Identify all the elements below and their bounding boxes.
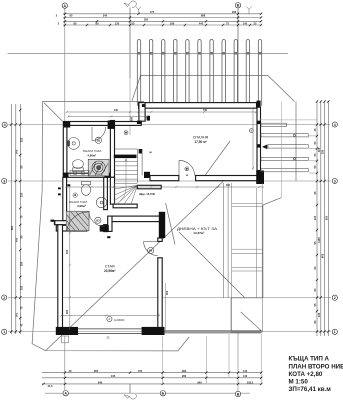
wall bathroom right [110,121,114,178]
svg-text:13,67м²: 13,67м² [193,231,204,235]
svg-text:120: 120 [313,215,317,220]
wall bedroom top [139,103,257,109]
svg-text:988: 988 [201,14,206,18]
shower bath1 [88,159,109,176]
svg-text:140: 140 [243,21,248,25]
wall stair west lower [110,177,114,204]
svg-text:3,98м²: 3,98м² [77,204,86,208]
wall hall west [108,216,112,231]
terrace rails [232,183,263,332]
svg-text:450: 450 [15,237,19,242]
shower bath2 hatched [66,211,89,231]
wall bath2 east lower [104,225,108,232]
tiny dimension numbers bottom [47,369,253,388]
svg-text:БАНЯ И ТОАЛ.: БАНЯ И ТОАЛ. [83,149,102,153]
room labels [69,136,218,340]
svg-text:В3: В3 [97,138,101,142]
svg-text:725: 725 [138,369,143,373]
dimension ticks bottom [42,371,262,385]
floor drain bath2 [73,193,77,197]
svg-text:ДНЕВНА + КЪТ ЗА: ДНЕВНА + КЪТ ЗА [177,227,218,231]
svg-text:Б: Б [162,392,165,396]
svg-text:2,17: 2,17 [53,219,57,225]
wall bedroom right [257,107,261,170]
svg-text:890: 890 [10,225,14,230]
svg-text:305: 305 [317,147,321,152]
walls (hollow double-line) [55,103,261,329]
svg-text:250: 250 [19,261,23,266]
tiny dimension numbers right rotated [313,128,328,323]
wall hall south [109,216,162,222]
wall staya top [56,225,87,231]
dimension ticks left [10,109,21,333]
wall B lower [158,238,162,241]
svg-text:290: 290 [65,309,69,314]
svg-text:140: 140 [243,369,248,373]
svg-text:730: 730 [203,109,208,112]
dimension ticks right [316,100,330,332]
wall axis3 west segment [150,176,179,181]
svg-text:940: 940 [98,380,103,384]
svg-text:160: 160 [114,109,119,112]
svg-text:152: 152 [19,285,23,290]
sink bath1 [67,138,79,150]
stair treads [115,162,138,184]
svg-text:940: 940 [197,380,202,384]
axis B top thick segment [237,8,239,102]
vanity bath2 [70,171,89,176]
svg-text:пр.180/60: пр.180/60 [114,319,125,322]
terrace square [231,298,263,332]
bottom window band [78,329,262,334]
exterior step stub [62,336,69,343]
dimension lines right [317,101,328,336]
svg-text:775: 775 [150,10,155,14]
dimension lines top [63,14,262,25]
sink bath2 [96,197,106,207]
wall axis3 east segment [196,176,261,181]
pergola rafters top-right [137,40,261,106]
svg-text:330: 330 [321,149,325,154]
wall bath2 west [63,177,67,220]
svg-text:Щир. 16,7/30: Щир. 16,7/30 [139,192,155,196]
svg-text:2: 2 [3,296,5,300]
svg-text:365: 365 [94,369,99,373]
wall column blocks [51,101,265,335]
svg-text:4,80м²: 4,80м² [87,154,96,158]
terrace upper edge line [260,119,317,121]
dimension lines left [11,104,20,334]
wall bath divider [63,173,110,177]
svg-text:41,5: 41,5 [47,384,53,388]
toilet bath1 [72,160,83,172]
svg-text:605: 605 [321,253,325,258]
svg-text:445: 445 [199,21,204,25]
svg-text:305: 305 [15,149,19,154]
svg-text:1: 1 [334,330,336,334]
svg-text:305: 305 [65,249,69,254]
stair winder fan [115,184,138,205]
svg-text:196: 196 [170,21,175,25]
dimension ticks top [64,13,262,27]
tiny dimension numbers left rotated [10,137,69,326]
wall stairwell edge [137,185,161,189]
svg-text:305: 305 [144,18,149,22]
terrace drain marker [124,131,128,135]
svg-text:135: 135 [317,312,321,317]
wall bedroom left [139,103,145,122]
door bath1 leaf and arc [92,127,106,141]
svg-text:102,5: 102,5 [247,380,254,384]
svg-text:3: 3 [334,179,336,183]
wall bath2 east upper [104,177,108,209]
section line + flags [129,8,131,394]
interior dim lines [60,107,264,330]
svg-text:3: 3 [3,179,5,183]
wall step sw [55,221,68,225]
wall bathroom top [63,122,141,126]
wall bathroom left [63,127,67,175]
svg-text:КЪЩА ТИП А: КЪЩА ТИП А [289,356,330,363]
tiny dimension numbers top [56,10,257,26]
rafter ridge junction marks [137,52,262,55]
svg-text:4: 4 [4,123,6,127]
svg-text:302: 302 [165,290,169,295]
stair enclosure [115,149,143,183]
beam3 arrow block [262,144,267,149]
svg-text:4: 4 [334,123,336,127]
svg-text:А: А [64,392,67,396]
stair walking line with arrow [120,159,127,202]
svg-text:280: 280 [182,369,187,373]
svg-text:20,96м²: 20,96м² [104,269,115,273]
svg-text:236: 236 [232,10,237,14]
door bath2 leaf and arc [89,211,104,226]
glazing dnevna east [223,183,228,298]
wall stair south [113,204,137,208]
svg-text:М 1:50: М 1:50 [289,378,309,385]
dimension hooks top [136,7,252,15]
svg-text:В: В [237,392,240,396]
svg-text:152: 152 [19,137,23,142]
door staya leaf and arc [144,241,158,255]
extension lines below building [163,136,317,383]
terrace mid vertical [280,102,282,198]
svg-text:1150: 1150 [317,237,321,243]
svg-text:ЗП=76,41 кв.м: ЗП=76,41 кв.м [289,386,332,393]
svg-text:140: 140 [243,374,248,378]
dimension lines bottom [42,373,262,384]
svg-text:1: 1 [3,330,5,334]
wall staya left [58,225,63,329]
dnevna wall-side vertical and number [165,283,167,332]
svg-text:280: 280 [182,374,187,378]
svg-text:445: 445 [111,374,116,378]
svg-text:120: 120 [115,21,120,25]
roof outline thin lines [8,53,297,351]
door bedroom leaf and arc [179,160,195,176]
svg-text:302: 302 [15,312,19,317]
title block [289,356,343,393]
svg-text:240: 240 [103,14,108,18]
svg-text:890: 890 [131,116,134,121]
svg-text:А: А [63,4,66,8]
svg-text:СПАЛНЯ: СПАЛНЯ [193,136,209,140]
svg-text:17,50 м²: 17,50 м² [194,140,206,144]
svg-text:120: 120 [19,192,23,197]
svg-text:920: 920 [325,215,329,220]
svg-text:2: 2 [334,296,336,300]
svg-text:ПЛАН ВТОРО НИВО: ПЛАН ВТОРО НИВО [289,363,343,370]
toilet bath2 [81,182,90,196]
svg-text:В3: В3 [96,218,100,222]
door marker circles [95,129,254,322]
svg-text:КОТА +2,80: КОТА +2,80 [289,371,323,378]
svg-text:В2: В2 [149,249,153,253]
side beams east of bedroom [261,123,308,172]
svg-text:В: В [237,4,240,8]
